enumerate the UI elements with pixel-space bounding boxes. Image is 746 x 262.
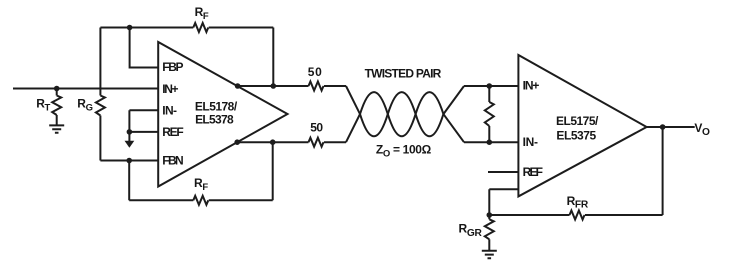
wire: input line to IN+ <box>13 88 158 90</box>
wire: FB connection from triangle to gain node <box>489 189 518 215</box>
svg-text:RGR: RGR <box>459 222 483 239</box>
node: REF/IN- junction <box>127 129 133 135</box>
node: output-/bottom RF junction <box>270 139 276 145</box>
node: termination bottom <box>487 139 493 145</box>
wire: drop to bottom RF <box>128 161 130 201</box>
svg-text:TWISTED PAIR: TWISTED PAIR <box>365 67 442 81</box>
node: FBN tap <box>126 158 132 164</box>
svg-text:IN-: IN- <box>523 135 538 149</box>
op-amp U1 driver triangle EL5178/EL5378 <box>158 42 287 187</box>
svg-text:50: 50 <box>310 121 323 135</box>
wire: IN- to REF connector <box>129 110 158 132</box>
svg-text:REF: REF <box>523 165 543 179</box>
wire: driver - output <box>237 141 346 143</box>
wire: bottom feedback run <box>129 142 273 200</box>
svg-text:EL5178/: EL5178/ <box>195 100 238 114</box>
wire: pair to receiver IN- <box>464 141 518 143</box>
resistor RF (bottom) <box>193 196 208 205</box>
wire: top feedback run <box>100 28 273 87</box>
svg-text:50: 50 <box>308 65 322 79</box>
resistor RFR <box>570 211 585 220</box>
wire: pair to receiver IN+ <box>464 85 518 87</box>
svg-text:RF: RF <box>195 5 209 22</box>
reference down-arrow <box>128 132 130 141</box>
wire: FBP connector <box>130 28 159 68</box>
resistor 50 (top) <box>309 82 324 91</box>
op-amp U2 receiver triangle EL5175/EL5375 <box>518 55 646 196</box>
node: output- on triangle edge <box>234 139 240 145</box>
node: output+/top RF junction <box>271 83 277 89</box>
node: output junction <box>660 124 666 130</box>
twisted pair wire B (enters bottom-left, exits bottom-right) <box>346 92 464 142</box>
svg-text:RT: RT <box>36 96 50 113</box>
svg-text:VO: VO <box>694 121 710 138</box>
resistor RGR <box>488 215 490 219</box>
svg-text:IN+: IN+ <box>162 82 178 96</box>
wire: driver + output <box>238 85 346 87</box>
svg-text:RF: RF <box>194 176 208 193</box>
svg-text:RFR: RFR <box>567 194 589 211</box>
svg-text:RG: RG <box>77 96 92 113</box>
node: input / RT junction <box>54 86 60 92</box>
ground under RT <box>49 125 64 132</box>
node: FBP tap on top RF wire <box>127 25 133 31</box>
resistor RT <box>56 89 58 96</box>
resistor RF (top) <box>193 23 208 32</box>
resistor 50 (bottom) <box>309 138 324 147</box>
svg-text:REF: REF <box>162 125 183 139</box>
svg-text:IN+: IN+ <box>523 78 540 92</box>
wire: FBN run <box>100 160 158 162</box>
wire: output to VO <box>647 126 695 128</box>
svg-text:FBN: FBN <box>162 154 183 168</box>
node: gain node (RGR/RFR junction) <box>487 212 493 218</box>
svg-text:EL5378: EL5378 <box>195 112 234 126</box>
svg-text:EL5175/: EL5175/ <box>556 114 599 128</box>
svg-text:EL5375: EL5375 <box>556 128 596 142</box>
ground under RGR <box>482 251 497 258</box>
node: termination top <box>487 83 493 89</box>
wire: RFR run <box>489 127 662 215</box>
svg-text:FBP: FBP <box>162 60 183 74</box>
twisted pair wire A (enters top-left, exits top-right) <box>346 86 464 136</box>
svg-text:ZO = 100Ω: ZO = 100Ω <box>376 143 432 160</box>
wire: REF stub <box>488 171 518 173</box>
node: output+ on triangle edge <box>235 83 241 89</box>
termination resistor (vertical, unlabeled) <box>488 86 490 102</box>
svg-text:IN-: IN- <box>162 103 177 117</box>
resistor RG (vertical between FBP net and FBN net, crosses input wire) <box>99 28 101 96</box>
